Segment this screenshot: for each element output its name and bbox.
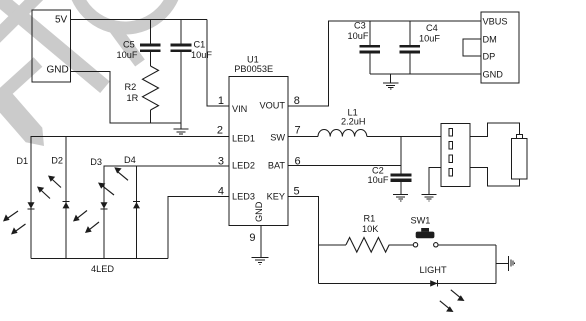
wire R1 branch [319,244,346,246]
LED emission arrows [3,167,465,312]
wire VOUT pin8 to top right rail [288,21,481,106]
svg-text:LIGHT: LIGHT [420,265,447,275]
ground under C3/C4 rail [383,74,399,89]
ground at pin9 [252,257,269,264]
svg-text:GND: GND [483,69,504,79]
wire R1 to switch [389,244,413,246]
svg-text:C1: C1 [194,39,206,49]
connector contacts [449,129,453,177]
chip U1 box [229,77,288,226]
svg-text:VIN: VIN [232,104,247,114]
diode D2 cathode bar [63,201,70,203]
svg-text:C5: C5 [123,39,135,49]
svg-text:PB0053E: PB0053E [234,64,273,74]
svg-text:6: 6 [295,155,301,167]
wire GND of 5V box [71,71,182,123]
wire LED2 net pin3 [104,166,229,259]
svg-text:D1: D1 [16,156,28,166]
svg-text:LED1: LED1 [232,133,255,143]
ground under C2 [393,195,408,201]
diode D4 cathode bar [133,201,140,203]
resistor R2 zigzag [143,66,159,110]
svg-text:10uF: 10uF [419,34,440,44]
svg-text:R2: R2 [125,82,137,92]
inductor L1 coil [318,129,367,136]
wire DM DP bracket [463,39,481,56]
svg-text:10uF: 10uF [191,50,212,60]
Q tail bar [112,25,140,63]
wire L1 to battery connector [367,136,441,138]
svg-text:10uF: 10uF [117,50,138,60]
resistor R2 lower stem [150,110,152,123]
battery cell [512,135,528,179]
capacitor C4 [400,21,421,74]
ring [73,0,177,28]
svg-text:4LED: 4LED [91,264,114,274]
wire right vertical [495,245,497,284]
svg-text:VBUS: VBUS [483,16,508,26]
svg-text:D3: D3 [90,157,102,167]
switch SW1 terminals [413,243,417,247]
svg-text:1: 1 [218,95,224,107]
diode D1 triangle [28,202,35,208]
arrows of D4 [98,167,128,195]
diode D1 cathode bar [28,208,35,210]
svg-text:9: 9 [249,232,255,244]
diode D4 triangle [133,202,140,208]
smooth-rendered components [28,66,438,287]
ground under C1 [174,127,189,134]
svg-text:KEY: KEY [267,192,285,202]
svg-text:10uF: 10uF [348,31,369,41]
wire LED3 net pin4 [168,197,229,259]
wire SW pin7 to L1 [288,136,318,138]
wire GND pin9 stub [260,226,262,258]
svg-text:2: 2 [217,124,223,136]
svg-text:C3: C3 [354,21,366,31]
svg-text:C2: C2 [372,166,384,176]
svg-text:3: 3 [218,155,224,167]
wire 5V to top rail [71,19,208,21]
wire D2 branch [65,136,67,258]
svg-text:C4: C4 [426,23,438,33]
svg-text:GND: GND [254,201,264,222]
wire battery negative loop [470,168,520,186]
svg-text:SW1: SW1 [411,216,431,226]
wire connector ground [429,168,441,195]
svg-text:LED2: LED2 [232,161,255,171]
svg-text:VOUT: VOUT [259,100,285,110]
stem A [0,0,45,44]
USB VBUS box [481,12,519,83]
wire D4 branch [136,166,138,259]
svg-text:2.2uH: 2.2uH [341,117,366,127]
wire battery positive loop [470,123,520,137]
arrows of D1 [3,211,26,235]
svg-text:4: 4 [218,185,224,197]
5V connector box [32,10,71,82]
diode LIGHT cathode bar [437,280,439,286]
diode LIGHT triangle [430,280,437,286]
switch SW1 body [416,232,435,239]
wire switch to right vertical [438,244,496,246]
wire KEY pin5 [288,197,319,284]
svg-text:DM: DM [483,34,497,44]
wire ground stub right [496,263,508,265]
svg-text:8: 8 [294,95,300,107]
pointed lower bar [0,89,44,146]
arrows of D2 [37,176,61,199]
svg-text:DP: DP [483,51,496,61]
watermark [0,0,177,146]
wire VIN riser [207,20,229,107]
svg-text:D4: D4 [124,155,136,165]
ground at connector [422,195,437,201]
wire LIGHT rail [319,282,496,284]
svg-text:SW: SW [270,132,285,142]
wire LED1 net pin2 [31,136,229,258]
svg-text:10uF: 10uF [368,175,389,185]
diode D2 triangle [63,202,70,208]
arrows of D3 [73,211,99,234]
capacitor C5 [140,20,161,67]
svg-text:1R: 1R [127,93,139,103]
capacitor C2 [391,137,412,195]
long diagonal bar [0,0,105,87]
svg-text:D2: D2 [51,156,63,166]
arrows of LIGHT [440,290,465,312]
wire C3 C4 ground rail to VBUS GND [370,73,481,75]
diode D3 cathode bar [101,208,108,210]
svg-text:LED3: LED3 [232,192,255,202]
svg-text:BAT: BAT [268,160,286,170]
resistor R1 zigzag [346,238,389,253]
diode D3 triangle [101,202,108,208]
svg-text:7: 7 [295,124,301,136]
battery connector box [441,124,470,187]
wire BAT pin6 [288,165,401,167]
capacitor C1 [171,20,192,128]
stem B [0,62,38,102]
wire LED bottom rail [31,258,168,260]
svg-text:R1: R1 [364,214,376,224]
svg-text:5V: 5V [55,15,68,26]
ground sideways right [508,256,514,271]
svg-text:10K: 10K [362,224,379,234]
svg-text:5: 5 [294,185,300,197]
svg-text:GND: GND [47,65,69,76]
capacitor C3 [360,21,381,74]
